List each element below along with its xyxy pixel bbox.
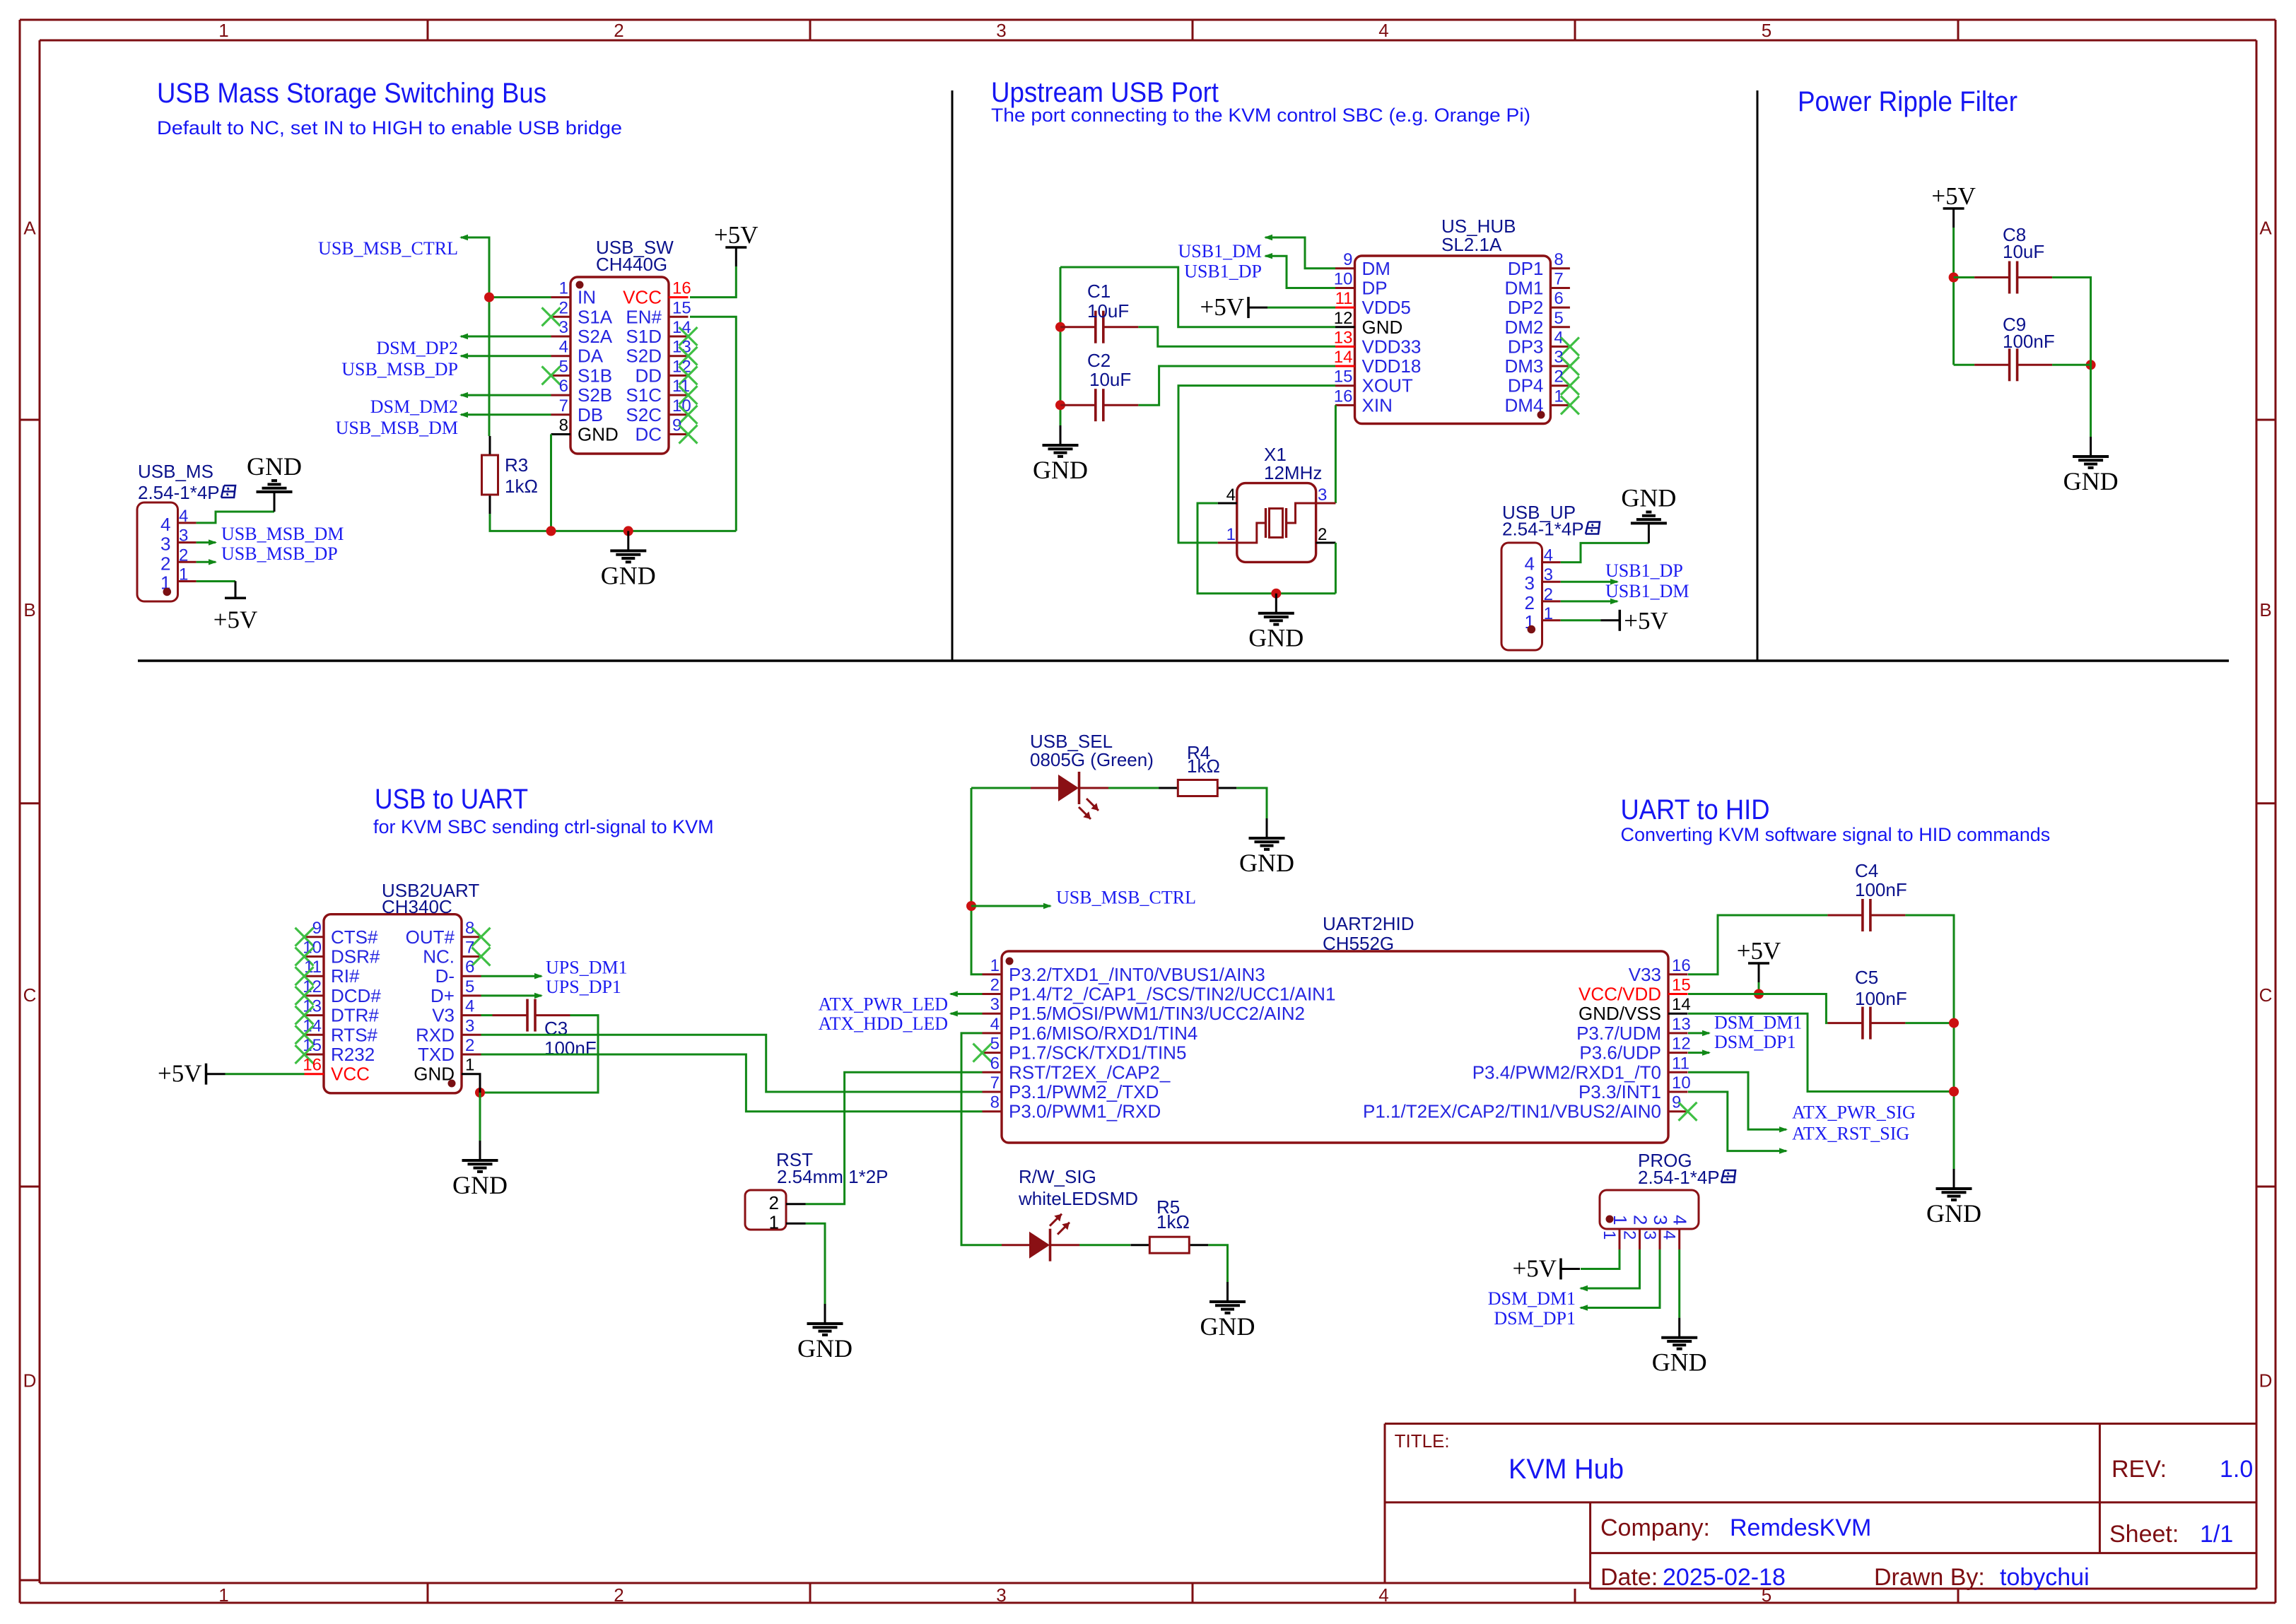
- svg-text:15: 15: [1672, 976, 1691, 995]
- svg-text:DP4: DP4: [1508, 375, 1544, 396]
- svg-text:whiteLEDSMD: whiteLEDSMD: [1018, 1188, 1138, 1209]
- svg-text:1: 1: [218, 1584, 228, 1606]
- svg-text:+5V: +5V: [714, 221, 758, 249]
- svg-text:GND: GND: [1926, 1199, 1981, 1228]
- svg-text:1: 1: [179, 565, 188, 584]
- svg-text:15: 15: [1334, 367, 1353, 387]
- svg-text:S1A: S1A: [578, 306, 613, 327]
- svg-text:3: 3: [990, 995, 1000, 1014]
- svg-text:CTS#: CTS#: [331, 926, 378, 948]
- svg-text:for KVM SBC sending ctrl-signa: for KVM SBC sending ctrl-signal to KVM: [373, 816, 714, 837]
- svg-text:+5V: +5V: [1737, 937, 1781, 965]
- svg-text:S2C: S2C: [626, 404, 662, 425]
- svg-text:Company:: Company:: [1600, 1514, 1710, 1541]
- svg-text:4: 4: [1226, 486, 1236, 505]
- svg-text:B: B: [2259, 599, 2271, 620]
- svg-text:1kΩ: 1kΩ: [505, 476, 538, 497]
- svg-text:11: 11: [1335, 289, 1353, 308]
- svg-text:REV:: REV:: [2111, 1456, 2167, 1483]
- svg-text:4: 4: [559, 338, 568, 357]
- svg-text:1kΩ: 1kΩ: [1187, 755, 1220, 777]
- svg-text:2: 2: [1630, 1215, 1651, 1225]
- svg-text:P3.7/UDM: P3.7/UDM: [1576, 1023, 1661, 1044]
- svg-text:3: 3: [1525, 572, 1535, 594]
- svg-text:USB_MSB_CTRL: USB_MSB_CTRL: [318, 238, 458, 259]
- svg-text:S1C: S1C: [626, 384, 662, 406]
- svg-text:TXD: TXD: [418, 1044, 455, 1065]
- svg-text:S2A: S2A: [578, 326, 613, 347]
- svg-text:10: 10: [1672, 1073, 1691, 1093]
- svg-text:VCC/VDD: VCC/VDD: [1578, 984, 1661, 1005]
- svg-text:RTS#: RTS#: [331, 1024, 378, 1045]
- svg-text:DC: DC: [635, 424, 662, 445]
- svg-text:USB1_DM: USB1_DM: [1605, 581, 1689, 601]
- svg-text:USB_MSB_CTRL: USB_MSB_CTRL: [1056, 888, 1196, 908]
- svg-text:4: 4: [1670, 1215, 1691, 1225]
- svg-text:USB1_DP: USB1_DP: [1605, 560, 1683, 581]
- svg-text:A: A: [2259, 218, 2272, 239]
- svg-text:CH552G: CH552G: [1323, 933, 1394, 954]
- svg-text:14: 14: [1334, 348, 1353, 367]
- svg-text:Date:: Date:: [1600, 1564, 1658, 1591]
- svg-text:USB1_DM: USB1_DM: [1178, 241, 1262, 261]
- svg-text:2: 2: [990, 976, 1000, 995]
- svg-text:DP: DP: [1362, 277, 1388, 298]
- svg-text:USB1_DP: USB1_DP: [1184, 261, 1262, 282]
- svg-text:10uF: 10uF: [2003, 241, 2044, 262]
- svg-text:3: 3: [1650, 1215, 1671, 1225]
- svg-text:3: 3: [179, 526, 188, 546]
- svg-text:CH440G: CH440G: [596, 254, 667, 275]
- svg-text:DTR#: DTR#: [331, 1005, 379, 1026]
- svg-text:2.54-1*4P: 2.54-1*4P: [1638, 1167, 1720, 1188]
- svg-text:S2D: S2D: [626, 346, 662, 367]
- svg-text:DSM_DP1: DSM_DP1: [1494, 1308, 1576, 1329]
- svg-text:P3.1/PWM2_/TXD: P3.1/PWM2_/TXD: [1009, 1081, 1159, 1102]
- svg-text:GND: GND: [2063, 467, 2119, 495]
- svg-text:VDD5: VDD5: [1362, 297, 1411, 318]
- svg-text:3: 3: [465, 1016, 474, 1035]
- svg-text:DM2: DM2: [1504, 317, 1543, 338]
- svg-text:1.0: 1.0: [2220, 1456, 2253, 1483]
- svg-text:15: 15: [672, 298, 691, 317]
- svg-text:CH340C: CH340C: [382, 896, 452, 917]
- svg-text:3: 3: [160, 534, 170, 555]
- svg-text:3: 3: [996, 20, 1006, 41]
- svg-text:2: 2: [179, 546, 188, 565]
- svg-text:tobychui: tobychui: [2000, 1564, 2090, 1591]
- svg-text:V33: V33: [1629, 964, 1661, 985]
- svg-text:UPS_DM1: UPS_DM1: [546, 958, 628, 978]
- svg-text:9: 9: [1343, 250, 1352, 269]
- svg-text:6: 6: [465, 958, 474, 977]
- svg-text:2: 2: [614, 1584, 623, 1606]
- svg-text:2: 2: [465, 1036, 474, 1055]
- svg-text:USB to UART: USB to UART: [375, 784, 528, 815]
- svg-text:DCD#: DCD#: [331, 985, 381, 1006]
- svg-text:13: 13: [1334, 328, 1353, 347]
- svg-text:USB_MSB_DP: USB_MSB_DP: [341, 359, 458, 379]
- svg-text:12: 12: [672, 357, 691, 376]
- svg-text:2: 2: [160, 553, 170, 574]
- svg-text:12: 12: [1334, 309, 1353, 328]
- svg-text:UART to HID: UART to HID: [1621, 794, 1770, 825]
- svg-text:VDD18: VDD18: [1362, 355, 1422, 377]
- svg-text:3: 3: [559, 318, 568, 337]
- svg-text:GND: GND: [797, 1334, 853, 1363]
- svg-text:P1.1/T2EX/CAP2/TIN1/VBUS2/AIN0: P1.1/T2EX/CAP2/TIN1/VBUS2/AIN0: [1363, 1101, 1661, 1122]
- svg-text:1: 1: [769, 1212, 779, 1233]
- svg-text:4: 4: [990, 1015, 1000, 1034]
- svg-text:6: 6: [559, 377, 568, 396]
- svg-text:DSM_DP2: DSM_DP2: [376, 338, 458, 358]
- svg-text:1: 1: [559, 279, 568, 298]
- svg-text:1/1: 1/1: [2200, 1521, 2233, 1548]
- svg-text:P1.6/MISO/RXD1/TIN4: P1.6/MISO/RXD1/TIN4: [1009, 1023, 1197, 1044]
- svg-text:DB: DB: [578, 404, 603, 425]
- svg-text:2: 2: [769, 1192, 779, 1213]
- svg-text:DP3: DP3: [1508, 336, 1544, 357]
- svg-text:16: 16: [672, 279, 691, 298]
- svg-text:D: D: [2259, 1370, 2273, 1391]
- svg-text:P1.5/MOSI/PWM1/TIN3/UCC2/AIN2: P1.5/MOSI/PWM1/TIN3/UCC2/AIN2: [1009, 1003, 1305, 1024]
- svg-text:4: 4: [179, 507, 188, 526]
- svg-text:8: 8: [990, 1093, 1000, 1112]
- svg-text:Upstream USB Port: Upstream USB Port: [991, 77, 1219, 108]
- svg-text:RemdesKVM: RemdesKVM: [1730, 1514, 1871, 1541]
- svg-text:4: 4: [1378, 20, 1388, 41]
- svg-text:EN#: EN#: [626, 306, 662, 327]
- svg-text:GND: GND: [1652, 1348, 1707, 1377]
- svg-text:3: 3: [1318, 486, 1327, 505]
- svg-text:5: 5: [1554, 309, 1563, 328]
- svg-text:1: 1: [465, 1056, 474, 1075]
- svg-text:A: A: [23, 218, 36, 239]
- svg-text:4: 4: [1544, 546, 1553, 565]
- svg-text:C5: C5: [1855, 967, 1878, 988]
- svg-text:+5V: +5V: [1200, 293, 1244, 321]
- svg-text:P3.3/INT1: P3.3/INT1: [1578, 1081, 1661, 1102]
- svg-text:C4: C4: [1855, 860, 1878, 881]
- svg-text:P1.7/SCK/TXD1/TIN5: P1.7/SCK/TXD1/TIN5: [1009, 1042, 1186, 1064]
- svg-text:DSR#: DSR#: [331, 946, 380, 967]
- svg-text:VDD33: VDD33: [1362, 336, 1422, 357]
- svg-text:R3: R3: [505, 454, 528, 476]
- svg-text:4: 4: [1378, 1584, 1388, 1606]
- svg-text:The port connecting to the KVM: The port connecting to the KVM control S…: [991, 105, 1530, 126]
- svg-text:UART2HID: UART2HID: [1323, 913, 1414, 934]
- svg-text:11: 11: [1672, 1054, 1689, 1073]
- svg-text:16: 16: [303, 1056, 322, 1075]
- svg-text:P3.0/PWM1_/RXD: P3.0/PWM1_/RXD: [1009, 1101, 1161, 1122]
- svg-text:P3.2/TXD1_/INT0/VBUS1/AIN3: P3.2/TXD1_/INT0/VBUS1/AIN3: [1009, 964, 1265, 985]
- svg-text:10: 10: [1334, 269, 1353, 288]
- svg-text:8: 8: [1554, 250, 1563, 269]
- svg-text:DSM_DM1: DSM_DM1: [1714, 1013, 1802, 1033]
- svg-text:7: 7: [990, 1073, 1000, 1093]
- svg-text:2: 2: [1544, 585, 1553, 604]
- svg-text:+5V: +5V: [1624, 607, 1668, 635]
- svg-text:2: 2: [1318, 525, 1327, 544]
- svg-text:16: 16: [1334, 387, 1353, 406]
- svg-text:2.54-1*4P: 2.54-1*4P: [138, 482, 220, 503]
- svg-text:100nF: 100nF: [1855, 988, 1907, 1009]
- svg-text:2.54-1*4P: 2.54-1*4P: [1502, 519, 1584, 540]
- svg-text:C2: C2: [1087, 350, 1111, 371]
- svg-text:4: 4: [465, 997, 474, 1016]
- svg-text:TITLE:: TITLE:: [1395, 1430, 1450, 1452]
- svg-text:P3.6/UDP: P3.6/UDP: [1579, 1042, 1661, 1064]
- svg-text:Default to NC, set IN to HIGH: Default to NC, set IN to HIGH to enable …: [157, 117, 622, 139]
- svg-text:DP2: DP2: [1508, 297, 1544, 318]
- svg-text:14: 14: [672, 318, 691, 337]
- svg-text:2.54mm 1*2P: 2.54mm 1*2P: [777, 1166, 889, 1187]
- svg-text:5: 5: [465, 977, 474, 996]
- svg-text:RI#: RI#: [331, 965, 360, 987]
- svg-text:GND: GND: [1200, 1312, 1255, 1341]
- svg-text:4: 4: [1525, 553, 1535, 575]
- svg-text:2: 2: [1525, 592, 1535, 613]
- svg-text:GND: GND: [1033, 456, 1088, 484]
- svg-text:4: 4: [1660, 1230, 1679, 1240]
- svg-text:100nF: 100nF: [2003, 331, 2055, 352]
- svg-text:V3: V3: [432, 1005, 455, 1026]
- svg-text:Converting KVM software signal: Converting KVM software signal to HID co…: [1621, 824, 2051, 845]
- svg-text:S2B: S2B: [578, 384, 612, 406]
- svg-text:XOUT: XOUT: [1362, 375, 1413, 396]
- svg-text:DD: DD: [635, 365, 662, 386]
- svg-text:D-: D-: [435, 965, 455, 987]
- svg-text:0805G (Green): 0805G (Green): [1030, 749, 1154, 770]
- svg-text:+5V: +5V: [1931, 182, 1976, 210]
- svg-text:ATX_PWR_LED: ATX_PWR_LED: [819, 994, 948, 1015]
- svg-text:10: 10: [672, 396, 691, 416]
- svg-text:8: 8: [559, 416, 568, 435]
- svg-text:DM3: DM3: [1504, 355, 1543, 377]
- svg-text:IN: IN: [578, 287, 596, 308]
- svg-text:DSM_DP1: DSM_DP1: [1714, 1032, 1796, 1052]
- svg-text:100nF: 100nF: [1855, 879, 1907, 900]
- svg-text:1kΩ: 1kΩ: [1156, 1211, 1190, 1232]
- svg-text:XIN: XIN: [1362, 394, 1393, 416]
- svg-text:12MHz: 12MHz: [1264, 462, 1322, 483]
- svg-text:Sheet:: Sheet:: [2109, 1521, 2179, 1548]
- svg-text:R232: R232: [331, 1044, 375, 1065]
- svg-text:DM: DM: [1362, 258, 1390, 279]
- svg-text:C1: C1: [1087, 281, 1111, 302]
- svg-text:GND: GND: [452, 1171, 508, 1199]
- svg-text:3: 3: [1640, 1230, 1659, 1240]
- svg-text:USB_MSB_DP: USB_MSB_DP: [221, 543, 338, 564]
- svg-text:USB_MSB_DM: USB_MSB_DM: [221, 524, 344, 544]
- svg-text:S1D: S1D: [626, 326, 662, 347]
- svg-text:B: B: [23, 599, 35, 620]
- svg-text:KVM Hub: KVM Hub: [1509, 1454, 1624, 1485]
- svg-text:2: 2: [1620, 1230, 1639, 1240]
- svg-text:RST/T2EX_/CAP2_: RST/T2EX_/CAP2_: [1009, 1061, 1171, 1083]
- svg-text:16: 16: [1672, 956, 1691, 975]
- svg-text:USB_MSB_DM: USB_MSB_DM: [336, 418, 458, 438]
- svg-text:Power Ripple Filter: Power Ripple Filter: [1798, 86, 2017, 117]
- svg-text:3: 3: [996, 1584, 1006, 1606]
- svg-text:USB Mass Storage Switching Bus: USB Mass Storage Switching Bus: [157, 78, 546, 109]
- svg-text:13: 13: [1672, 1015, 1691, 1034]
- svg-text:GND: GND: [601, 561, 656, 589]
- svg-text:14: 14: [1672, 995, 1691, 1014]
- svg-text:C: C: [2259, 984, 2273, 1006]
- svg-text:3: 3: [1544, 565, 1553, 584]
- svg-text:GND: GND: [1239, 849, 1294, 877]
- svg-text:DM4: DM4: [1504, 394, 1543, 416]
- svg-text:10uF: 10uF: [1089, 369, 1131, 390]
- svg-text:ATX_HDD_LED: ATX_HDD_LED: [819, 1013, 948, 1034]
- svg-text:UPS_DP1: UPS_DP1: [546, 977, 621, 997]
- svg-text:4: 4: [160, 514, 170, 535]
- svg-text:C: C: [23, 984, 37, 1006]
- svg-text:6: 6: [990, 1054, 1000, 1073]
- svg-text:+5V: +5V: [213, 606, 258, 633]
- svg-text:OUT#: OUT#: [406, 926, 455, 948]
- svg-text:2025-02-18: 2025-02-18: [1663, 1564, 1786, 1591]
- svg-text:7: 7: [1554, 269, 1563, 288]
- svg-text:1: 1: [218, 20, 228, 41]
- svg-text:+5V: +5V: [1512, 1255, 1557, 1283]
- svg-text:1: 1: [990, 956, 1000, 975]
- svg-text:GND: GND: [1621, 483, 1676, 512]
- svg-text:ATX_PWR_SIG: ATX_PWR_SIG: [1792, 1102, 1916, 1123]
- svg-text:DP1: DP1: [1508, 258, 1544, 279]
- svg-text:5: 5: [1762, 20, 1771, 41]
- svg-text:GND: GND: [1362, 317, 1403, 338]
- svg-text:10uF: 10uF: [1087, 300, 1129, 322]
- svg-text:GND/VSS: GND/VSS: [1578, 1003, 1661, 1024]
- svg-text:DSM_DM2: DSM_DM2: [370, 396, 458, 417]
- svg-text:P1.4/T2_/CAP1_/SCS/TIN2/UCC1/A: P1.4/T2_/CAP1_/SCS/TIN2/UCC1/AIN1: [1009, 984, 1335, 1005]
- svg-text:1: 1: [1544, 604, 1553, 623]
- svg-text:+5V: +5V: [158, 1060, 202, 1088]
- svg-text:RXD: RXD: [416, 1024, 455, 1045]
- svg-text:S1B: S1B: [578, 365, 612, 386]
- svg-text:GND: GND: [1248, 624, 1304, 652]
- svg-text:1: 1: [1600, 1230, 1619, 1240]
- svg-text:P3.4/PWM2/RXD1_/T0: P3.4/PWM2/RXD1_/T0: [1472, 1061, 1661, 1083]
- svg-text:D: D: [23, 1370, 37, 1391]
- svg-text:ATX_RST_SIG: ATX_RST_SIG: [1792, 1124, 1909, 1144]
- svg-text:USB_MS: USB_MS: [138, 461, 213, 482]
- svg-text:Drawn By:: Drawn By:: [1874, 1564, 1985, 1591]
- svg-text:12: 12: [1672, 1035, 1691, 1054]
- svg-text:GND: GND: [578, 424, 619, 445]
- svg-text:2: 2: [614, 20, 623, 41]
- svg-text:1: 1: [1226, 525, 1236, 544]
- svg-text:D+: D+: [430, 985, 455, 1006]
- svg-text:6: 6: [1554, 289, 1563, 308]
- svg-text:VCC: VCC: [623, 287, 662, 308]
- svg-text:DA: DA: [578, 346, 604, 367]
- svg-text:GND: GND: [247, 452, 302, 481]
- svg-text:SL2.1A: SL2.1A: [1441, 234, 1502, 255]
- svg-text:7: 7: [559, 396, 568, 416]
- svg-text:DM1: DM1: [1504, 277, 1543, 298]
- svg-text:R/W_SIG: R/W_SIG: [1019, 1166, 1096, 1187]
- svg-text:NC.: NC.: [423, 946, 455, 967]
- svg-text:DSM_DM1: DSM_DM1: [1488, 1288, 1576, 1309]
- svg-text:VCC: VCC: [331, 1064, 370, 1085]
- svg-text:13: 13: [672, 338, 691, 357]
